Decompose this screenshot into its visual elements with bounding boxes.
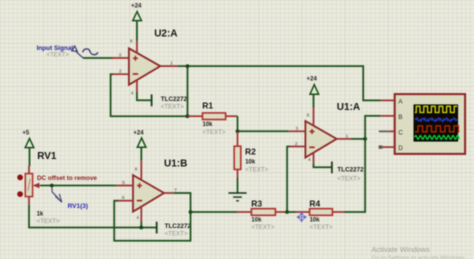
wire R1 to U1:A pin3 node (237, 116, 239, 131)
generator symbol (72, 46, 98, 58)
svg-text:<TEXT>: <TEXT> (37, 218, 60, 225)
svg-text:+5: +5 (22, 130, 30, 137)
svg-text:+24: +24 (307, 75, 318, 82)
wire U1:B pin6 feedback loop (114, 201, 190, 241)
svg-text:8: 8 (307, 112, 310, 117)
svg-text:TLC2272: TLC2272 (161, 96, 188, 103)
svg-text:RV1: RV1 (37, 151, 57, 162)
U1:A pin 1 stub (337, 138, 351, 140)
svg-text:<TEXT>: <TEXT> (310, 224, 333, 231)
oscilloscope pin C stub (379, 130, 389, 132)
svg-text:2: 2 (295, 141, 298, 147)
U1:A pin 4 stub (313, 153, 315, 164)
svg-text:1: 1 (170, 61, 173, 67)
op-amp U1:A (305, 121, 336, 158)
junction U1:B output node (189, 210, 193, 214)
svg-text:4: 4 (131, 90, 134, 95)
U2:A V- wire to power terminal (137, 92, 151, 100)
junction R3/R4 feedback node (285, 210, 289, 214)
resistor R4 (310, 209, 333, 216)
svg-text:<TEXT>: <TEXT> (337, 175, 360, 182)
svg-text:B: B (398, 114, 402, 121)
U1:B V- wire to power terminal (140, 222, 142, 228)
scope trace channel D (green sine wave) (415, 136, 460, 140)
power +24 (above U2:A) (131, 2, 142, 20)
wire U1:A output to net B (351, 138, 365, 140)
RV1 top pin stub (28, 166, 30, 174)
svg-text:U1:B: U1:B (164, 158, 187, 169)
svg-text:3: 3 (295, 126, 298, 132)
svg-text:1k: 1k (37, 212, 44, 218)
wire R2 to ground (237, 178, 239, 193)
wire node to U1:A pin 3 (238, 130, 289, 132)
power +5 (above RV1) (22, 130, 33, 148)
oscilloscope pin A stub (381, 99, 395, 101)
svg-text:<TEXT>: <TEXT> (245, 166, 268, 173)
U2:A pin 2 stub (112, 73, 129, 75)
svg-text:<TEXT>: <TEXT> (161, 104, 184, 111)
U1:B part value TLC2272 (165, 223, 192, 237)
svg-text:TLC2272: TLC2272 (337, 167, 364, 174)
ground (228, 193, 246, 201)
scope trace channel A (yellow square wave) (415, 106, 457, 112)
svg-text:8: 8 (135, 166, 138, 171)
wire RV1 bottom to U1:B V- rail (29, 205, 141, 228)
power +24 (above U1:B) (133, 130, 146, 148)
U2:A pin 8 stub (136, 41, 138, 54)
resistor R2 (234, 146, 241, 169)
RV1 terminal indicator dot top (17, 175, 23, 181)
scope trace channel B (blue noisy wave) (415, 118, 458, 122)
wire U2:A output to net A corner (178, 66, 381, 100)
svg-text:10k: 10k (245, 159, 256, 165)
svg-text:R2: R2 (245, 146, 256, 156)
RV1 bottom pin stub (28, 197, 30, 205)
wire RV1 wiper to U1:B pin 5 (41, 185, 117, 187)
U2:A pin 3 stub (112, 57, 129, 59)
U1:B pin 5 stub (116, 185, 133, 187)
wire V- rail to power terminal bar (141, 227, 156, 229)
resistor R2 leads (237, 131, 239, 146)
wire U1:A pin2 feedback to R3/R4 node (287, 147, 289, 213)
oscilloscope pin B stub (381, 115, 395, 117)
svg-text:U1:A: U1:A (337, 102, 360, 113)
wire net B up to scope B (365, 116, 381, 139)
junction U1:B V- rail (139, 226, 143, 230)
U1:A pin 3 stub (289, 130, 306, 132)
svg-text:R1: R1 (202, 100, 213, 110)
U2:A power terminal bar (151, 94, 153, 106)
U1:A pin 2 stub (289, 146, 305, 148)
svg-text:<TEXT>: <TEXT> (251, 224, 274, 231)
resistor R1 (203, 113, 226, 120)
wire U2:A output down to R1 (187, 66, 189, 116)
U1:B power terminal bar (156, 222, 158, 234)
svg-text:Input Signal: Input Signal (37, 45, 74, 52)
junction wiper net label anchor (50, 184, 54, 188)
svg-text:10k: 10k (251, 218, 262, 224)
svg-text:Activate Windows: Activate Windows (372, 245, 431, 254)
svg-text:C: C (398, 130, 403, 137)
svg-text:5: 5 (122, 180, 125, 186)
U2:A pin 1 stub (160, 65, 177, 67)
U1:B pin 8 stub (140, 161, 142, 179)
svg-text:+24: +24 (131, 2, 142, 9)
resistor R1 leads (188, 115, 203, 117)
oscilloscope pin D stub (379, 145, 383, 148)
U1:A pin 8 stub (313, 108, 315, 127)
scope trace channel C (red square wave) (415, 126, 460, 132)
wire node to R3 (191, 211, 238, 213)
junction R1 left node (186, 114, 190, 118)
U1:A power terminal bar (331, 162, 333, 174)
wire +24 to U2:A pin 8 (136, 21, 138, 41)
svg-text:<TEXT>: <TEXT> (203, 129, 226, 136)
wire net B down to R4 (344, 139, 365, 212)
resistor R4 leads (287, 211, 296, 213)
U2:A part value TLC2272 (161, 96, 188, 110)
junction U1:A output (363, 137, 367, 141)
wire U2:A feedback (pin 2 to node R1-left) (111, 74, 188, 116)
svg-text:4: 4 (136, 215, 139, 220)
U2:A pin 4 stub (136, 79, 138, 92)
junction R1/R2/U1:A node (236, 129, 240, 133)
svg-text:RV1(3): RV1(3) (68, 203, 88, 210)
svg-text:D: D (398, 145, 403, 152)
svg-text:10k: 10k (203, 122, 214, 128)
op-amp U1:B (133, 175, 164, 212)
origin anchor marker (297, 213, 306, 222)
oscilloscope body (395, 94, 465, 154)
svg-text:8: 8 (130, 38, 133, 43)
svg-text:1: 1 (345, 133, 348, 139)
RV1 terminal indicator dot bottom (17, 191, 23, 197)
potentiometer RV1 (25, 174, 32, 197)
RV1 wiper arrow (34, 184, 41, 188)
svg-text:R4: R4 (309, 198, 320, 208)
junction U2:A output (186, 64, 190, 68)
U1:B pin 4 stub (140, 207, 142, 222)
wire +24 to U1:B pin 8 (140, 147, 142, 160)
svg-text:+24: +24 (133, 130, 144, 137)
generator label Input Signal (37, 45, 74, 58)
svg-text:<TEXT>: <TEXT> (47, 52, 70, 58)
U1:A V- wire to power terminal (314, 164, 332, 168)
svg-text:6: 6 (122, 195, 125, 201)
U1:B pin 6 stub (117, 200, 133, 202)
oscilloscope screen (414, 104, 459, 141)
svg-text:<TEXT>: <TEXT> (165, 230, 188, 237)
resistor R3 (251, 209, 275, 216)
U1:A part value TLC2272 (337, 167, 364, 183)
wire +5 to RV1 (29, 148, 31, 166)
wire +24 to U1:A pin 8 (313, 94, 315, 107)
svg-text:4: 4 (308, 157, 311, 162)
svg-text:DC offset to remove: DC offset to remove (37, 175, 97, 182)
power +24 (above U1:A) (307, 75, 319, 94)
wire U1:B output to node (174, 193, 191, 212)
op-amp U2:A (129, 48, 160, 85)
wire generator to U2:A pin 3 (83, 57, 113, 59)
resistor R3 leads (237, 211, 251, 213)
svg-text:3: 3 (119, 53, 122, 59)
net pointer arrow RV1(3) (52, 187, 62, 203)
U1:B pin 7 stub (164, 192, 174, 194)
svg-text:2: 2 (119, 69, 122, 75)
svg-text:TLC2272: TLC2272 (165, 223, 192, 230)
svg-text:U2:A: U2:A (154, 29, 177, 40)
svg-text:10k: 10k (310, 218, 321, 224)
svg-text:R3: R3 (251, 198, 262, 208)
